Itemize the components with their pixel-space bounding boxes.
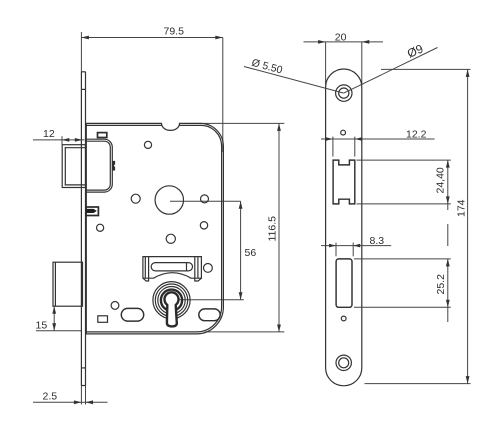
svg-text:12: 12 <box>43 128 55 140</box>
svg-text:116.5: 116.5 <box>267 216 279 242</box>
svg-text:24,40: 24,40 <box>435 167 447 193</box>
svg-text:8.3: 8.3 <box>370 235 385 247</box>
svg-text:15: 15 <box>36 320 48 332</box>
svg-text:20: 20 <box>335 32 347 44</box>
svg-text:174: 174 <box>456 199 468 217</box>
svg-text:2.5: 2.5 <box>43 391 58 403</box>
svg-text:12.2: 12.2 <box>406 129 427 141</box>
svg-text:25.2: 25.2 <box>435 274 447 295</box>
svg-text:79.5: 79.5 <box>164 26 185 38</box>
svg-text:56: 56 <box>245 247 257 259</box>
